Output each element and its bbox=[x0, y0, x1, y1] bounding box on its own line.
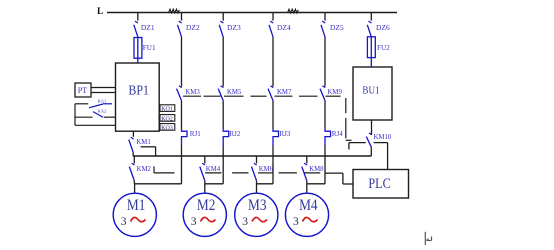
svg-text:KM10: KM10 bbox=[374, 134, 392, 141]
wire RJ4 tap to PLC bbox=[325, 173, 353, 184]
svg-text:3: 3 bbox=[293, 216, 299, 228]
contactor KM4 bbox=[200, 156, 221, 184]
svg-text:KA1: KA1 bbox=[98, 99, 107, 104]
svg-text:BP1: BP1 bbox=[128, 82, 149, 97]
svg-text:KO3: KO3 bbox=[161, 125, 173, 131]
contactor KM5 bbox=[218, 37, 242, 101]
svg-text:KM8: KM8 bbox=[309, 166, 324, 173]
svg-text:3: 3 bbox=[242, 216, 248, 228]
svg-text:BU1: BU1 bbox=[362, 86, 379, 97]
mechanical linkage dashes top row bbox=[183, 95, 341, 97]
svg-text:KO2: KO2 bbox=[161, 116, 173, 122]
breaker DZ5 bbox=[321, 13, 344, 37]
motor M2 bbox=[183, 193, 226, 236]
svg-text:M2: M2 bbox=[197, 197, 216, 214]
contactor KM10 bbox=[366, 120, 392, 156]
converter BU1 bbox=[353, 67, 392, 120]
relay output KO3 bbox=[160, 124, 175, 132]
svg-text:PLC: PLC bbox=[368, 176, 390, 192]
svg-text:KM4: KM4 bbox=[206, 166, 221, 173]
wire KM10 right terminal to PLC bbox=[374, 143, 388, 170]
contactor KM3 bbox=[177, 37, 201, 101]
svg-text:DZ1: DZ1 bbox=[141, 23, 155, 32]
svg-text:M1: M1 bbox=[127, 197, 145, 214]
wire stem to M4 bbox=[306, 184, 308, 193]
relay output KO1 bbox=[160, 105, 175, 113]
motor M4 bbox=[285, 193, 328, 236]
contactor KM6 bbox=[252, 156, 274, 184]
svg-text:3: 3 bbox=[191, 216, 197, 228]
wire stem to M1 bbox=[134, 184, 136, 193]
svg-text:3: 3 bbox=[121, 216, 127, 228]
svg-text:FU1: FU1 bbox=[143, 44, 156, 52]
contactor KM2 bbox=[129, 156, 151, 184]
svg-text:FU2: FU2 bbox=[377, 44, 390, 52]
svg-text:RJ1: RJ1 bbox=[190, 130, 201, 138]
contact KA1 bbox=[75, 99, 112, 108]
svg-text:DZ2: DZ2 bbox=[186, 23, 200, 32]
svg-text:KM3: KM3 bbox=[185, 89, 200, 96]
contact KA2 bbox=[75, 108, 116, 117]
wire motor junction M1 bbox=[134, 183, 181, 185]
breaker DZ3 bbox=[219, 13, 241, 37]
wire KM1 right terminal bbox=[141, 147, 156, 156]
wire motor junction M4 bbox=[307, 183, 325, 185]
svg-text:KA2: KA2 bbox=[98, 108, 107, 113]
svg-text:RJ2: RJ2 bbox=[230, 130, 241, 138]
motor M1 bbox=[113, 193, 156, 236]
contactor KM8 bbox=[302, 156, 324, 184]
svg-text:KM6: KM6 bbox=[259, 166, 274, 173]
thermal relay RJ3 bbox=[273, 101, 291, 184]
contactor KM1 bbox=[129, 131, 151, 156]
svg-text:RJ4: RJ4 bbox=[332, 130, 343, 138]
wire PT to BP1 lower bbox=[91, 92, 116, 94]
mechanical linkage dashes bottom row bbox=[154, 166, 320, 173]
svg-text:KO1: KO1 bbox=[161, 107, 173, 113]
svg-text:DZ3: DZ3 bbox=[227, 23, 241, 32]
wire PT to BP1 upper bbox=[91, 87, 116, 89]
wire top rail L bbox=[107, 12, 397, 14]
wire inverter output bus bbox=[133, 155, 371, 157]
svg-text:KM2: KM2 bbox=[137, 166, 152, 173]
wire stem to M2 bbox=[204, 184, 206, 193]
contactor KM7 bbox=[268, 37, 292, 101]
inverter BP1 bbox=[116, 63, 160, 131]
breaker DZ2 bbox=[178, 13, 200, 37]
svg-text:KM5: KM5 bbox=[227, 89, 242, 96]
cursor mark bbox=[425, 232, 431, 245]
thermal relay RJ2 bbox=[223, 101, 241, 184]
wire motor junction M2 bbox=[205, 183, 223, 185]
breaker DZ4 bbox=[269, 13, 291, 37]
motor M3 bbox=[235, 193, 278, 236]
breaker DZ1 bbox=[134, 13, 155, 37]
wire KA block left vertical bbox=[74, 104, 76, 126]
svg-text:PT: PT bbox=[78, 86, 87, 95]
svg-text:KM9: KM9 bbox=[328, 89, 343, 96]
wire KA block bottom to BP1 bbox=[75, 124, 116, 126]
breaker DZ6 bbox=[367, 13, 390, 37]
svg-text:M3: M3 bbox=[248, 197, 267, 214]
thermal relay RJ1 bbox=[182, 101, 202, 184]
fuse FU1 bbox=[134, 37, 156, 63]
svg-text:DZ6: DZ6 bbox=[376, 23, 390, 32]
svg-text:M4: M4 bbox=[299, 197, 318, 214]
inductor squiggle 2 on rail bbox=[288, 9, 299, 13]
svg-text:DZ4: DZ4 bbox=[277, 23, 291, 32]
wire KM10 left terminal bbox=[349, 143, 366, 150]
transformer PT bbox=[75, 83, 91, 97]
svg-text:L: L bbox=[97, 7, 103, 17]
wire motor junction M3 bbox=[257, 183, 274, 185]
svg-text:DZ5: DZ5 bbox=[330, 23, 344, 32]
svg-text:RJ3: RJ3 bbox=[280, 130, 291, 138]
wire stem to M3 bbox=[256, 184, 258, 193]
contactor KM9 bbox=[320, 37, 342, 101]
svg-text:KM7: KM7 bbox=[277, 89, 292, 96]
mechanical linkage dashed vertical to KM10 bbox=[346, 98, 352, 140]
fuse FU2 bbox=[367, 37, 390, 67]
inductor squiggle 1 on rail bbox=[169, 9, 180, 13]
svg-text:KM1: KM1 bbox=[136, 139, 150, 146]
relay output KO2 bbox=[160, 115, 175, 123]
thermal relay RJ4 bbox=[325, 101, 343, 184]
PLC box bbox=[353, 170, 409, 199]
